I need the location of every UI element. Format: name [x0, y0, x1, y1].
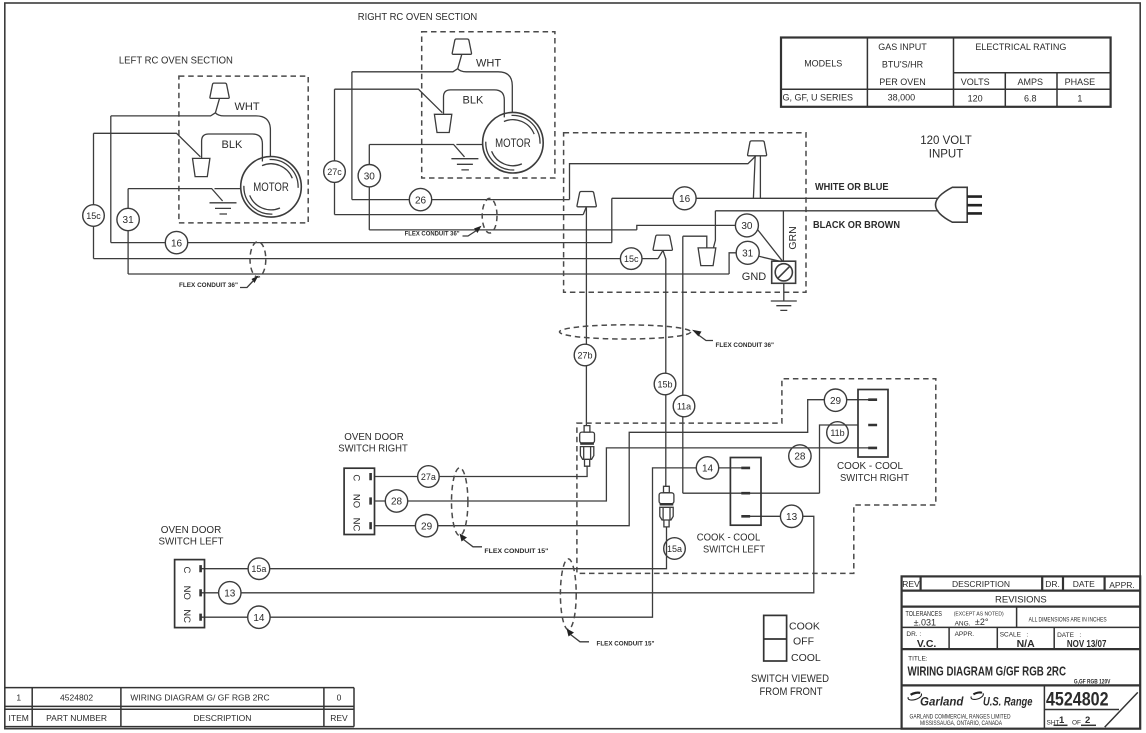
models rating table [781, 38, 1111, 107]
svg-text:DESCRIPTION: DESCRIPTION [952, 579, 1010, 589]
svg-text:REV: REV [330, 713, 348, 723]
svg-text:13: 13 [786, 512, 798, 523]
svg-text:PART NUMBER: PART NUMBER [46, 713, 107, 723]
ignition cable connector 15 [659, 486, 674, 527]
svg-text:OF: OF [1072, 720, 1081, 727]
earth ground below lug [771, 301, 797, 310]
wire 15c long run [94, 258, 659, 260]
svg-text:COOK - COOL: COOK - COOL [837, 460, 903, 472]
svg-text:INPUT: INPUT [929, 149, 964, 161]
wire 30 to ground lug [758, 230, 783, 262]
svg-text:MODELS: MODELS [804, 59, 842, 69]
svg-text:U.S. Range: U.S. Range [983, 697, 1033, 709]
wire 11a drop [682, 236, 684, 493]
svg-text:COOL: COOL [791, 652, 821, 664]
svg-text:WHT: WHT [235, 101, 260, 113]
svg-text:G,GF RGB 120V: G,GF RGB 120V [1074, 679, 1111, 686]
wire WHT right branch to motor [458, 69, 513, 113]
svg-text:MOTOR: MOTOR [253, 182, 289, 194]
svg-text:1: 1 [1059, 715, 1065, 726]
svg-text:COOK: COOK [789, 621, 820, 633]
ignition cable connector 27 [580, 426, 595, 467]
node 26 [409, 188, 431, 210]
svg-text:29: 29 [830, 396, 842, 407]
node 15a left [248, 558, 270, 580]
wire ground/neutral to motor left [128, 189, 241, 201]
svg-text:PER OVEN: PER OVEN [879, 77, 926, 87]
control area dashed boundary [577, 379, 936, 574]
wire 11a/11b to cook-cool left common [683, 492, 820, 494]
node 28 left [385, 490, 407, 512]
node 16 mid [673, 187, 696, 210]
oven door switch left [175, 560, 205, 628]
node 15b [654, 373, 676, 395]
svg-text:NOV 13/07: NOV 13/07 [1067, 638, 1107, 650]
node 14 right [696, 457, 718, 479]
svg-text:ANG.: ANG. [955, 620, 971, 627]
node 11b (behind wires) [827, 422, 849, 444]
flex conduit 15 label right [460, 534, 549, 556]
svg-text:1: 1 [1077, 94, 1082, 104]
wire vertical 30 [368, 145, 370, 230]
svg-text:REV: REV [902, 579, 920, 589]
svg-text:DR.: DR. [1045, 579, 1060, 589]
svg-text:15b: 15b [657, 380, 672, 390]
svg-text:±2°: ±2° [975, 617, 989, 627]
flex conduit 15 label left [567, 629, 655, 648]
svg-text:27c: 27c [327, 167, 342, 177]
wire igniter stem to WHT junction [215, 98, 219, 112]
spark electrode cup left (BLK) [193, 158, 210, 176]
wire igniter stem to WHT junction [458, 54, 462, 68]
cook-off-cool rocker switch front view [764, 615, 787, 661]
svg-text:27b: 27b [577, 351, 592, 361]
svg-text:±.031: ±.031 [914, 617, 936, 627]
svg-text:GRN: GRN [787, 226, 799, 249]
motor M-left [241, 157, 302, 218]
svg-text:28: 28 [391, 497, 403, 508]
node 15c mid [620, 248, 642, 270]
svg-text:38,000: 38,000 [888, 93, 916, 103]
wire 14 run [201, 468, 750, 617]
wire 15b drop [663, 250, 666, 486]
svg-text:16: 16 [679, 194, 691, 205]
node 30 mid [735, 214, 758, 237]
wire 30 jog [637, 225, 736, 230]
node 13 right [780, 505, 802, 527]
svg-text:11a: 11a [677, 402, 691, 412]
svg-text:NO: NO [181, 586, 192, 600]
svg-text:120: 120 [968, 94, 983, 104]
ground symbol right oven [451, 159, 478, 170]
svg-text:FLEX CONDUIT 36": FLEX CONDUIT 36" [179, 282, 238, 289]
node 16 [165, 231, 187, 253]
wire 13 run [201, 516, 814, 593]
svg-text:WIRING DIAGRAM G/GF RGB 2RC: WIRING DIAGRAM G/GF RGB 2RC [908, 664, 1067, 679]
wire 31 to ground lug [759, 256, 782, 261]
oven door switch right [344, 468, 374, 534]
wire 11b run [820, 425, 859, 493]
parts list strip [5, 688, 354, 727]
svg-text:FLEX CONDUIT 15": FLEX CONDUIT 15" [597, 641, 655, 648]
svg-text:OVEN DOOR: OVEN DOOR [344, 431, 404, 443]
svg-text:28: 28 [794, 452, 806, 463]
svg-text:15a: 15a [251, 564, 266, 574]
svg-text:31: 31 [123, 215, 135, 226]
wire WHT right branch to motor [215, 113, 270, 157]
svg-text:2: 2 [1085, 715, 1090, 726]
svg-text:ITEM: ITEM [9, 713, 29, 723]
drawing number cell [1046, 689, 1138, 728]
ground lug screw [772, 261, 796, 283]
svg-text:VOLTS: VOLTS [961, 77, 990, 87]
node 13 left [219, 582, 241, 604]
wire 15c stem [658, 250, 663, 258]
svg-text:0: 0 [337, 693, 342, 703]
node 27c [324, 161, 346, 183]
svg-text:6.8: 6.8 [1024, 94, 1037, 104]
wire 16 long run [111, 242, 612, 244]
wire 16 riser [611, 198, 613, 242]
wire white line to plug [612, 197, 939, 199]
power plug [936, 187, 983, 222]
svg-text:14: 14 [702, 464, 714, 475]
svg-text:NC: NC [351, 518, 362, 532]
svg-text:15a: 15a [667, 544, 682, 554]
node 11a [673, 395, 695, 417]
flex conduit 15 ellipse left [560, 559, 576, 630]
igniter electrode mid (15 lead) [653, 235, 672, 250]
wire BLK cup to motor [444, 90, 505, 118]
wire 27c run to mid box [335, 214, 584, 216]
flex conduit 15 ellipse right [452, 468, 468, 536]
flex conduit 36 label mid [692, 330, 774, 349]
title block [902, 576, 1141, 728]
svg-text:APPR.: APPR. [1109, 580, 1135, 590]
cook-cool switch right [858, 390, 888, 458]
svg-text:MISSISSAUGA, ONTARIO, CANADA: MISSISSAUGA, ONTARIO, CANADA [920, 720, 1003, 727]
node 15a right (behind wires) [664, 538, 686, 560]
svg-text:LEFT RC OVEN SECTION: LEFT RC OVEN SECTION [119, 55, 233, 67]
cook-cool switch left [730, 458, 761, 526]
wire 15a from connector [201, 527, 667, 569]
svg-text:ALL DIMENSIONS ARE IN INCHES: ALL DIMENSIONS ARE IN INCHES [1029, 616, 1107, 623]
left RC oven section enclosure [179, 76, 308, 223]
120V input junction enclosure [564, 133, 806, 292]
svg-text:29: 29 [421, 521, 433, 532]
svg-text:SWITCH RIGHT: SWITCH RIGHT [840, 472, 910, 484]
svg-text:BLK: BLK [463, 95, 484, 107]
svg-text:BTU'S/HR: BTU'S/HR [882, 60, 924, 70]
svg-text:14: 14 [253, 613, 265, 624]
svg-text:REVISIONS: REVISIONS [995, 594, 1047, 605]
node 27b [574, 344, 596, 366]
svg-text:4524802: 4524802 [60, 693, 93, 703]
Garland / U.S. Range logos [908, 692, 1033, 726]
svg-text:13: 13 [224, 589, 236, 600]
motor M-right [483, 112, 544, 173]
wire BLK cup to motor [202, 134, 263, 162]
wire 27b drop [585, 207, 587, 426]
right RC oven section enclosure [422, 32, 555, 178]
svg-text:15c: 15c [86, 211, 101, 221]
node 27a [418, 466, 440, 488]
svg-text:TITLE:: TITLE: [908, 656, 928, 663]
svg-text:AMPS: AMPS [1017, 77, 1043, 87]
svg-text:27a: 27a [421, 472, 436, 482]
wire 26 riser and top run [570, 156, 756, 200]
wire vertical 26 [351, 72, 353, 200]
svg-text:SWITCH RIGHT: SWITCH RIGHT [338, 443, 408, 455]
wire 28 run [375, 448, 878, 501]
spark electrode cup mid (11 lead) [698, 248, 716, 266]
wire vertical 16 [110, 116, 112, 243]
node 31 mid [736, 241, 759, 264]
svg-text:15c: 15c [624, 254, 639, 264]
svg-text:FLEX CONDUIT 36": FLEX CONDUIT 36" [405, 230, 460, 237]
svg-text:SWITCH VIEWED: SWITCH VIEWED [751, 673, 829, 685]
svg-text:FLEX CONDUIT 36": FLEX CONDUIT 36" [716, 342, 775, 349]
wire vertical 15c [93, 133, 95, 258]
flex conduit 36 ellipse right [482, 198, 497, 233]
svg-text:26: 26 [415, 195, 427, 206]
wire BLK inlet diagonal to cup [335, 89, 443, 113]
svg-text:N/A: N/A [1017, 638, 1036, 650]
wire 31 long run [128, 273, 729, 275]
node 31 [117, 208, 139, 230]
wire 27a from connector [375, 466, 588, 476]
wire GRN drop [782, 211, 784, 261]
svg-text:30: 30 [364, 171, 376, 182]
flex conduit 36 label left [179, 276, 259, 290]
svg-text:4524802: 4524802 [1046, 689, 1109, 711]
node 14 left [248, 606, 270, 628]
svg-text:RIGHT RC OVEN SECTION: RIGHT RC OVEN SECTION [358, 11, 478, 23]
wire 31 jog [729, 253, 736, 274]
svg-text:Garland: Garland [920, 697, 964, 709]
wire vertical 27c [334, 89, 336, 214]
svg-text:120 VOLT: 120 VOLT [920, 135, 972, 147]
igniter electrode top (white lead) [748, 141, 767, 156]
svg-text:C: C [181, 566, 192, 573]
svg-text:WIRING DIAGRAM G/ GF RGB 2RC: WIRING DIAGRAM G/ GF RGB 2RC [130, 693, 269, 703]
svg-text:V.C.: V.C. [917, 638, 937, 650]
svg-text:GND: GND [742, 271, 767, 283]
node 29 right [824, 389, 846, 411]
svg-text:FROM FRONT: FROM FRONT [760, 686, 823, 698]
wire 30 run to mid box [369, 229, 637, 231]
svg-text:G, GF, U SERIES: G, GF, U SERIES [783, 93, 854, 103]
svg-text:1: 1 [16, 693, 21, 703]
igniter electrode mid-left (27 lead) [577, 192, 596, 207]
svg-text:NO: NO [351, 494, 362, 508]
spark electrode cup right (BLK) [434, 114, 451, 132]
wire 26 run to mid box [352, 199, 570, 201]
ground symbol left oven [210, 203, 237, 214]
wire 11a tap [683, 236, 707, 248]
igniter electrode right (WHT) [452, 39, 471, 54]
svg-text:DATE: DATE [1073, 579, 1095, 589]
svg-text:31: 31 [742, 249, 754, 260]
svg-text:16: 16 [171, 238, 183, 249]
wire lug to earth [783, 283, 785, 301]
node 30 [358, 165, 380, 187]
wire igniter pair down to white line [753, 156, 760, 198]
flex conduit 36 ellipse mid (horizontal) [560, 325, 691, 339]
svg-text:OVEN DOOR: OVEN DOOR [161, 524, 222, 536]
node 28 right (behind wires) [789, 445, 811, 467]
node 15c [83, 205, 105, 227]
svg-text:11b: 11b [830, 428, 844, 438]
svg-text:OFF: OFF [793, 636, 814, 648]
svg-text:WHITE OR BLUE: WHITE OR BLUE [815, 181, 889, 193]
wire 29 run [375, 400, 878, 526]
svg-text:WHT: WHT [476, 58, 501, 70]
svg-text:FLEX CONDUIT 15": FLEX CONDUIT 15" [484, 548, 548, 555]
node 29 left [415, 515, 437, 537]
wire BLK inlet diagonal to cup [94, 133, 201, 157]
flex conduit 36 ellipse left [250, 242, 266, 277]
wire WHT left branch [352, 69, 458, 72]
svg-text:DESCRIPTION: DESCRIPTION [193, 713, 251, 723]
wire black line to plug [715, 210, 938, 212]
svg-text:NC: NC [181, 609, 192, 623]
wire ground/neutral to motor left [369, 145, 482, 157]
svg-text:ELECTRICAL RATING: ELECTRICAL RATING [975, 42, 1066, 52]
svg-text:GAS INPUT: GAS INPUT [878, 42, 927, 52]
wire vertical 31 [127, 189, 129, 274]
wire cup to black line [713, 211, 715, 248]
flex conduit 36 label right [405, 226, 482, 238]
svg-text:BLACK OR BROWN: BLACK OR BROWN [813, 219, 900, 231]
svg-text:C: C [351, 474, 362, 481]
svg-text:PHASE: PHASE [1065, 77, 1096, 87]
svg-text:BLK: BLK [222, 139, 243, 151]
svg-text:SWITCH LEFT: SWITCH LEFT [159, 536, 225, 548]
svg-text:COOK - COOL: COOK - COOL [697, 532, 761, 544]
svg-text:MOTOR: MOTOR [495, 138, 531, 150]
igniter electrode left (WHT) [210, 83, 229, 98]
wire WHT left branch [111, 113, 216, 116]
svg-text:30: 30 [741, 221, 753, 232]
wire 27c stem [583, 207, 586, 215]
svg-text:SWITCH LEFT: SWITCH LEFT [703, 544, 766, 556]
svg-text:APPR.: APPR. [955, 631, 975, 638]
